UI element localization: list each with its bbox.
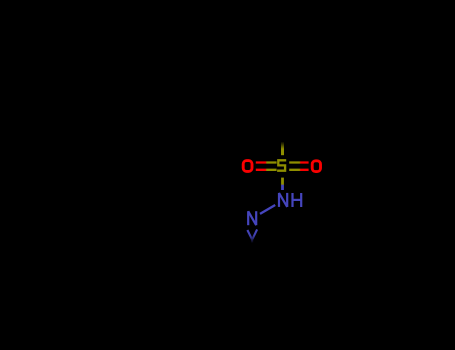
wire: S=O double bond right (olive half near S, red half near O) [289, 161, 308, 163]
node O (left oxygen of sulfonyl) [243, 161, 252, 172]
node NH (hydrazide nitrogen) : letter N [279, 193, 287, 207]
node O (right oxygen of sulfonyl) [312, 161, 320, 172]
node N (imine nitrogen of hydrazone) [248, 211, 256, 225]
node S (sulfonyl sulfur) [277, 160, 286, 170]
wire: N-N single bond between NH and N (all blue) [260, 205, 275, 214]
wire: C=N double bond below N (blue halves converging, fading to black toward carbon) [247, 230, 252, 239]
wire: bond from aryl carbon down to S (lower half, sulfur colored, fades to black at top) [281, 142, 284, 155]
wire: S-N bond (olive upper half, blue lower half) [281, 178, 284, 190]
node NH : letter H [293, 193, 302, 207]
wire: fading stub of bond continuing toward carbon skeleton [251, 239, 253, 243]
wire: S=O double bond left (two lines, red half near O, olive half near S) [256, 161, 277, 163]
